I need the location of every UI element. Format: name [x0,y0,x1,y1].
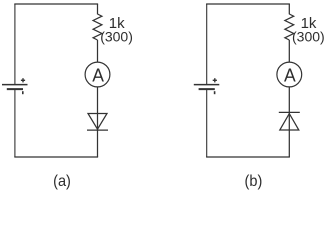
wire: diode to bottom (a) [97,130,99,157]
wire: ammeter to diode (a) [97,87,99,130]
wire: right side top (a) [97,4,99,14]
wire: bottom of circuit (b) [206,156,290,158]
ammeter A1 (a) [85,62,110,87]
svg-text:(b): (b) [245,173,263,190]
ammeter A2 (b) [277,62,302,87]
wire: bottom of circuit (a) [14,156,98,158]
svg-text:A: A [92,65,104,85]
wire: left side upper (b) [206,4,208,84]
svg-text:(300): (300) [100,28,133,44]
wire: left side lower (b) [206,89,208,157]
wire: left side upper (a) [14,4,16,84]
wire: ammeter to diode (b) [288,87,290,130]
battery B1 (a) [2,78,28,94]
svg-text:(a): (a) [53,173,71,190]
resistor R1 1k (a) [93,14,102,40]
wire: resistor to ammeter (b) [288,40,290,62]
svg-text:(300): (300) [292,28,325,44]
wire: top of circuit (b) [206,3,290,5]
wire: resistor to ammeter (a) [97,40,99,62]
battery B2 (b) [194,78,220,94]
svg-text:A: A [284,65,296,85]
wire: right side top (b) [288,4,290,14]
wire: left side lower (a) [14,89,16,157]
wire: diode to bottom (b) [288,130,290,157]
diode D2 (b), reversed [279,112,300,130]
diode D1 (a) [87,114,108,131]
resistor R2 1k (b) [285,14,294,40]
wire: top of circuit (a) [14,3,98,5]
